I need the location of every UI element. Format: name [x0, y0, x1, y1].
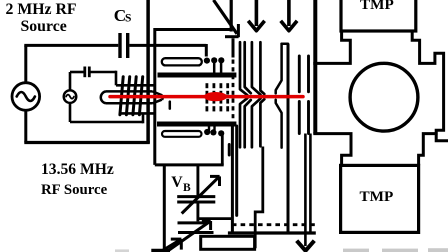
- stubs dots to top bar: [214, 63, 221, 73]
- variable capacitor 2 arrow: [167, 221, 211, 252]
- wire to variable capacitor 1: [196, 165, 199, 196]
- wire from bottom dot down: [221, 135, 224, 165]
- arrow gas flow 1: [248, 0, 264, 31]
- wire big loop bottom: [24, 141, 150, 144]
- pump arrow down: [297, 241, 315, 251]
- capacitor Cs: [120, 33, 128, 58]
- label 13.56 MHz RF Source: [41, 161, 114, 198]
- electrode plate bottom: [162, 131, 202, 137]
- coil cross-section dots top: [204, 57, 225, 64]
- bias box top wire: [155, 163, 224, 166]
- plasma ellipse: [204, 92, 228, 101]
- wire big loop top: [24, 44, 206, 57]
- label VB: [171, 174, 191, 194]
- wire top entry vertical: [230, 0, 233, 32]
- svg-text:RF Source: RF Source: [41, 182, 108, 198]
- label Cs: [114, 6, 132, 25]
- capacitor C2: [85, 67, 90, 78]
- wire below variable capacitor 1: [196, 202, 199, 221]
- coil cross-section dots bottom: [204, 129, 224, 137]
- skimmer cone: [252, 42, 264, 147]
- electrode plate top: [162, 58, 202, 65]
- variable capacitor 2: [178, 223, 214, 233]
- svg-text:TMP: TMP: [360, 188, 394, 205]
- wire sampler bias: [231, 126, 234, 233]
- chamber wall: [313, 0, 317, 134]
- svg-text:13.56 MHz: 13.56 MHz: [41, 161, 114, 178]
- svg-text:2 MHz RF: 2 MHz RF: [6, 1, 77, 18]
- svg-text:V: V: [171, 174, 183, 191]
- stubs dots to bottom bar: [209, 127, 215, 130]
- extraction lens electrode: [276, 44, 288, 148]
- wire branch to sampler rail: [198, 217, 232, 220]
- wire RF feed horizontal: [155, 28, 231, 31]
- wire matching loop bottom: [70, 113, 143, 123]
- gate valve circle: [350, 63, 418, 131]
- wire extraction lens down: [287, 44, 290, 233]
- variable capacitor 3 arrow: [160, 239, 181, 252]
- TMP top box: [341, 0, 416, 31]
- arrow diagonal into interface: [214, 0, 239, 37]
- sampler cone: [240, 42, 251, 147]
- wire to bias box corner: [228, 145, 231, 156]
- wire lens plates down 2: [309, 134, 312, 234]
- variable capacitor 1 arrow: [182, 176, 220, 213]
- ground rail solid: [228, 231, 316, 234]
- arrow gas flow 2: [281, 0, 297, 31]
- ion lens plate pair: [299, 56, 308, 134]
- svg-text:S: S: [125, 13, 131, 25]
- plasma beam: [110, 95, 303, 99]
- shield plate top bar: [158, 73, 237, 78]
- ground rail dashed: [232, 223, 316, 226]
- coil dashes behind plasma columns: [207, 83, 228, 111]
- svg-text:Source: Source: [21, 18, 67, 35]
- component box: [201, 236, 255, 249]
- variable capacitor 1: [177, 197, 215, 202]
- svg-text:B: B: [183, 182, 191, 194]
- wire matching loop top: [70, 71, 116, 86]
- variable capacitor 3 plate: [151, 249, 170, 252]
- torch outer tube: [116, 85, 156, 113]
- wire RF feed vertical: [153, 28, 156, 165]
- faint caption remnants: [115, 248, 448, 252]
- wire skimmer bias dead-end: [235, 126, 238, 215]
- wire lens plates down 1: [304, 134, 307, 247]
- shield plate bottom bar: [157, 122, 236, 127]
- AC source 13.56 MHz: [64, 72, 77, 122]
- boundary line solid top segment: [232, 38, 235, 57]
- vacuum chamber outline: [313, 31, 448, 165]
- torch inner tube: [101, 91, 170, 108]
- AC source 2 MHz: [12, 45, 40, 142]
- svg-text:TMP: TMP: [360, 0, 394, 13]
- TMP bottom box: [341, 165, 419, 232]
- wire skimmer down: [255, 147, 263, 249]
- load coil turns over torch: [120, 77, 143, 115]
- bias box left wire: [163, 165, 166, 250]
- wall left of interface: [146, 0, 150, 143]
- label 2 MHz RF Source: [6, 1, 77, 35]
- boundary line dashed segment: [232, 60, 235, 122]
